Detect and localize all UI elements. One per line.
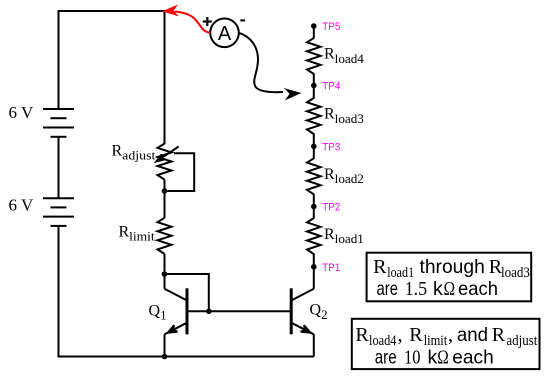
svg-text:Rload2: Rload2 (324, 166, 364, 186)
note box 2 (352, 319, 540, 369)
wire Radjust to Rlimit (164, 191, 166, 218)
svg-text:TP3: TP3 (322, 141, 340, 153)
svg-text:and: and (457, 324, 488, 346)
wire red meter lead with arrow (165, 7, 210, 33)
svg-text:A: A (218, 23, 232, 45)
node TP4 (311, 81, 340, 93)
svg-text:k: k (433, 278, 443, 300)
wire base Q1-Q2 (187, 310, 291, 312)
svg-text:Rload3: Rload3 (324, 106, 364, 126)
node junction Q1 emitter on bottom rail (162, 354, 168, 360)
svg-text:Rlimit: Rlimit (119, 224, 156, 244)
svg-text:R: R (355, 324, 369, 346)
battery B2 6V (43, 198, 74, 226)
ammeter minus terminal label (240, 19, 245, 21)
note box 1 (367, 253, 532, 302)
svg-text:Rload4: Rload4 (324, 46, 364, 66)
wire bottom rail (58, 356, 314, 358)
resistor Radjust (rheostat) zigzag (158, 144, 172, 180)
svg-text:R: R (409, 324, 423, 346)
node TP2 (311, 202, 340, 214)
resistor Rload4 (307, 26, 321, 86)
svg-text:k: k (428, 346, 438, 368)
svg-text:are: are (377, 278, 399, 300)
node TP5 (311, 21, 340, 33)
svg-text:Ω: Ω (437, 346, 449, 368)
wire between batteries (58, 137, 60, 198)
svg-text:each: each (452, 346, 493, 368)
svg-text:load3: load3 (501, 265, 530, 281)
wire left rail upper (58, 10, 60, 109)
svg-text:6 V: 6 V (9, 195, 34, 214)
wire black meter lead with arrow (239, 33, 283, 92)
svg-text:TP4: TP4 (322, 81, 340, 93)
svg-text:each: each (458, 278, 498, 300)
wire Radjust bottom stub (164, 180, 166, 191)
resistor Rload3 (307, 86, 321, 147)
ammeter plus terminal label (203, 17, 212, 26)
Radjust wiper arrow (161, 147, 179, 159)
wire left rail lower (58, 226, 60, 357)
resistor Rload1 (307, 207, 321, 267)
svg-text:Q2: Q2 (310, 302, 328, 322)
svg-text:TP1: TP1 (322, 262, 340, 274)
note box 2 text line 1 (355, 324, 537, 349)
node junction base tie (206, 309, 212, 315)
node junction Radjust bottom (162, 188, 168, 194)
wire collector feedback to base (diode connection) (165, 274, 209, 311)
svg-text:,: , (398, 324, 403, 346)
node TP3 (311, 141, 340, 153)
svg-text:1.5: 1.5 (405, 278, 428, 300)
transistor Q2 (291, 267, 314, 357)
wire top horizontal (59, 10, 166, 12)
wire center column top (to Radjust) (164, 11, 166, 144)
svg-text:are: are (375, 346, 397, 368)
note box 1 text line 1 (373, 256, 530, 281)
svg-text:Ω: Ω (444, 278, 456, 300)
svg-text:adjust: adjust (506, 333, 537, 349)
svg-text:,: , (448, 324, 453, 346)
battery B1 6V (43, 109, 74, 137)
note box 1 text line 2 (377, 278, 499, 300)
transistor Q1 (165, 274, 188, 357)
svg-text:R: R (373, 256, 387, 278)
svg-text:through: through (420, 256, 485, 278)
resistor Rlimit zigzag (158, 218, 172, 254)
svg-text:R: R (492, 324, 506, 346)
svg-text:TP2: TP2 (322, 202, 340, 214)
svg-text:TP5: TP5 (322, 21, 340, 33)
node TP1 (311, 262, 340, 274)
svg-text:Rload1: Rload1 (324, 226, 364, 246)
svg-text:6 V: 6 V (9, 103, 34, 122)
svg-text:Q1: Q1 (149, 302, 167, 322)
wire Rlimit bottom stub (164, 254, 166, 274)
ammeter U1 circle (210, 19, 239, 48)
svg-text:Radjust: Radjust (112, 142, 156, 162)
note box 2 text line 2 (375, 346, 494, 368)
node junction Rlimit bottom / Q1 collector (162, 271, 168, 277)
resistor Rload2 (307, 146, 321, 206)
svg-text:10: 10 (404, 346, 421, 368)
wire Radjust wiper loop (165, 153, 195, 191)
